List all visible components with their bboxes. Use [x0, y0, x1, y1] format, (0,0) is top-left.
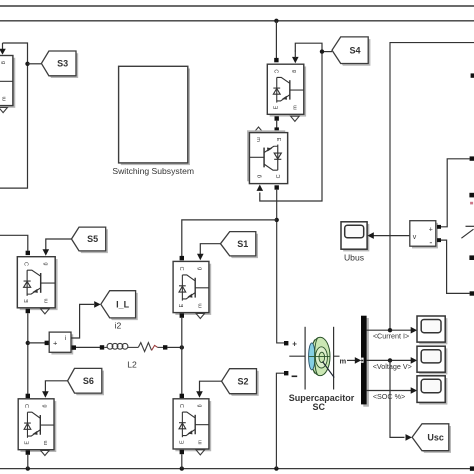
port square E below S6: [26, 450, 30, 454]
port m triangle below S2: [196, 450, 205, 455]
tag Usc: [414, 426, 451, 453]
wire: V plus up to right edge port: [441, 159, 470, 227]
port square i2 left: [45, 341, 49, 345]
svg-text:-: -: [429, 237, 432, 247]
wire: S5 tag to gate: [46, 239, 72, 250]
svg-text:Ubus: Ubus: [344, 253, 364, 263]
top bus line 2: [0, 20, 474, 22]
transistor flipped IGBT (rotated 180): [247, 130, 288, 183]
port square supercap minus: [284, 371, 288, 375]
svg-text:S4: S4: [349, 45, 360, 55]
svg-text:Usc: Usc: [427, 433, 444, 443]
node: voltage wire junction (Usc tap): [388, 358, 392, 362]
wire: S6 tag to gate: [45, 381, 67, 392]
breaker switch glyph: [466, 225, 474, 227]
port square C upper IGBT: [274, 58, 278, 62]
scope Scope3 (SOC): [417, 376, 447, 405]
supercapacitor SC icon: [289, 327, 339, 390]
wire: S5 E down to S6 C: [27, 313, 29, 394]
node: i2 tap junction: [26, 341, 30, 345]
node: supercap minus to bottom bus: [274, 466, 278, 470]
node: bus junction to middle leg: [274, 19, 278, 23]
wire: S3 gate top run: [0, 43, 28, 188]
svg-text:<Voltage V>: <Voltage V>: [373, 362, 412, 371]
port square right edge (plus net): [470, 156, 474, 160]
svg-text:S3: S3: [57, 59, 68, 69]
wire: bus to C of upper IGBT: [275, 21, 277, 58]
port square L2 left: [100, 345, 104, 349]
port square right edge (breaker out): [469, 255, 474, 260]
transistor S1 IGBT: [173, 261, 211, 315]
svg-text:S5: S5: [87, 234, 98, 244]
svg-text:i: i: [65, 335, 66, 342]
svg-text:i2: i2: [115, 321, 122, 331]
port square E below S2: [180, 450, 184, 454]
wire: V minus down to right edge port: [441, 240, 470, 293]
port square C below flipped IGBT: [275, 185, 279, 189]
subsystem Switching Subsystem: [121, 69, 190, 166]
svg-text:<Current I>: <Current I>: [373, 332, 409, 341]
wire: gate arrow into partial block: [2, 43, 4, 50]
scope Scope2 (Voltage): [417, 346, 447, 374]
bottom bus wire: [0, 468, 471, 470]
port square C of S6: [26, 394, 30, 398]
transistor S5 IGBT: [17, 257, 57, 310]
port m triangle below S6: [41, 450, 50, 455]
port square E above flipped IGBT: [275, 127, 279, 131]
port square E below S5: [26, 309, 30, 313]
wire: S4 gate branch to flipped IGBT: [260, 52, 322, 201]
wire: SOC to scope3: [367, 390, 412, 392]
port m triangle below S5: [41, 309, 50, 314]
wire: Usc tap down and right: [390, 360, 405, 437]
red mark breaker: [470, 202, 473, 205]
port square L2 right: [163, 345, 167, 349]
transistor S2 IGBT: [173, 399, 211, 451]
wire: Voltage V to scope2: [367, 359, 412, 361]
wire: V block to Ubus: [374, 235, 410, 237]
port square C of S1: [180, 256, 184, 260]
block i2 current measurement: [51, 334, 73, 354]
wire: C feed from left edge: [0, 235, 28, 251]
port m triangle below upper IGBT: [291, 116, 300, 121]
tag S6: [70, 371, 104, 396]
tag S1: [223, 234, 258, 258]
svg-text:L2: L2: [127, 359, 137, 369]
tag S3: [44, 53, 79, 78]
wire: m to bus selector: [347, 359, 356, 361]
node S4 junction: [320, 49, 324, 53]
node: S1 top feed junction: [275, 218, 279, 222]
svg-text:S6: S6: [83, 376, 94, 386]
tag S5: [74, 229, 108, 253]
port m triangle below partial block: [0, 108, 7, 113]
node: current wire junction: [388, 328, 392, 332]
wire: S4 gate branch to upper IGBT: [295, 43, 322, 51]
bus selector bar: [363, 318, 369, 407]
top bus line 1: [0, 5, 474, 7]
wire: supercap minus down to bottom bus: [276, 373, 284, 468]
node: S6 leg to bottom bus: [26, 466, 30, 470]
voltage measurement block V: [410, 221, 441, 249]
wire: Current I to scope1: [367, 329, 412, 331]
tag S4: [334, 39, 370, 66]
svg-text:I_L: I_L: [116, 300, 130, 310]
port square bottom-right bus end: [470, 466, 474, 470]
port square i2 right: [72, 345, 76, 349]
port m triangle above flipped IGBT: [254, 127, 263, 132]
wire: S1 C feed from middle leg: [182, 220, 277, 256]
port square right edge top: [471, 73, 474, 77]
transistor upper middle IGBT: [267, 64, 306, 116]
port m triangle below S1: [196, 313, 205, 318]
scope Ubus: [341, 222, 369, 252]
wire: S6 E to bottom bus: [27, 455, 29, 469]
tag S2: [224, 371, 259, 396]
port square supercap plus: [284, 341, 288, 345]
svg-text:m: m: [340, 357, 347, 366]
tag I_L: [103, 293, 138, 320]
inductor L2 coil: [104, 343, 138, 349]
port square right edge (breaker in): [469, 193, 474, 198]
port square E below S1: [180, 313, 184, 317]
wire: S2 tag to gate: [200, 381, 222, 392]
wire: L2 to S1 leg: [167, 346, 181, 348]
svg-text:+: +: [292, 340, 297, 349]
port square E below upper IGBT: [275, 116, 279, 120]
node: S3 tag junction: [25, 62, 29, 66]
svg-text:SC: SC: [313, 402, 326, 412]
wire: junction to i2: [28, 342, 45, 344]
wire: junction to S3 tag: [28, 63, 42, 65]
wire: E to E link: [276, 121, 278, 128]
wire: S4 tag to junction: [322, 51, 332, 53]
svg-text:<SOC %>: <SOC %>: [373, 392, 405, 401]
svg-text:+: +: [429, 226, 433, 233]
wire: mid leg down to supercap plus: [277, 190, 284, 343]
node: S2 leg to bottom bus: [180, 466, 184, 470]
wire: i2 output to I_L tag: [71, 304, 94, 338]
wire: i2 to L2: [76, 346, 100, 348]
port square C of S2: [180, 394, 184, 398]
scope Scope1 (Current): [417, 316, 447, 344]
svg-text:Switching Subsystem: Switching Subsystem: [112, 166, 194, 176]
wire: S2 E to bottom bus: [181, 454, 183, 468]
transistor Q-S3 (partially cut at left edge): [0, 55, 15, 107]
wire: S1 E down to S2 C: [181, 318, 183, 394]
svg-text:+: +: [53, 339, 58, 348]
svg-text:S2: S2: [237, 376, 248, 386]
wire: long feed from top right to Current wire: [390, 43, 474, 331]
port square right edge (minus net): [470, 291, 474, 295]
node: L2 junction on S1 leg: [180, 345, 184, 349]
port square C of S5: [26, 251, 30, 255]
wire: S1 tag to gate: [200, 244, 220, 255]
resistor of L2: [138, 343, 151, 352]
transistor S6 IGBT: [18, 399, 56, 452]
svg-text:v: v: [413, 234, 417, 241]
svg-text:S1: S1: [237, 239, 248, 249]
